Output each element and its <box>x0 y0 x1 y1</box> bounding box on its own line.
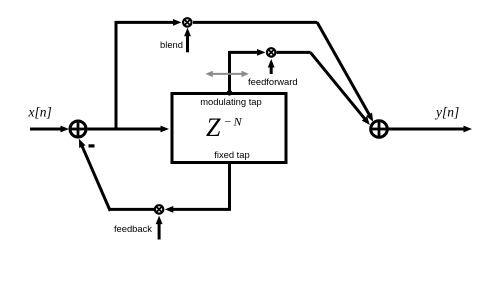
multiplier M1 (blend) <box>183 18 191 26</box>
wire S1 to delay box <box>88 128 163 131</box>
output wire <box>389 128 465 131</box>
minus sign at feedback input of S1 <box>89 144 95 147</box>
svg-text:modulating tap: modulating tap <box>200 96 262 107</box>
wire tap up <box>228 52 231 92</box>
svg-text:fixed tap: fixed tap <box>214 149 249 160</box>
multiplier M3 (feedback) <box>155 205 163 213</box>
wire bottom to feedback multiplier <box>172 208 232 211</box>
delay box Z^-N <box>172 94 286 163</box>
wire blend multiplier to corner <box>193 21 317 24</box>
svg-text:y[n]: y[n] <box>434 105 459 120</box>
adder S1 (input summing node) <box>70 121 86 137</box>
junction dot at modulating tap <box>227 90 233 96</box>
wire input to adder S1 <box>30 128 62 131</box>
svg-text:blend: blend <box>160 39 183 50</box>
wire branch up to blend (vertical) <box>115 22 118 129</box>
diagonal wire feedforward to adder S2 <box>310 52 365 119</box>
svg-text:feedforward: feedforward <box>248 76 298 87</box>
wire feedforward to corner <box>277 51 311 54</box>
svg-text:feedback: feedback <box>114 223 152 234</box>
diagonal wire blend to adder S2 <box>317 22 369 114</box>
adder S2 (output summing node) <box>371 121 388 138</box>
svg-text:x[n]: x[n] <box>28 105 52 120</box>
diagonal wire feedback up to adder S1 <box>81 145 110 211</box>
multiplier M2 (feedforward) <box>267 48 275 56</box>
blend control arrow (vertical up) <box>186 32 189 52</box>
wire fixed tap down <box>228 162 231 209</box>
feedback control arrow (vertical up) <box>158 220 161 240</box>
wire tap to feedforward multiplier <box>228 51 259 54</box>
wire feedback multiplier to corner <box>109 208 154 211</box>
wire top horizontal to blend multiplier <box>115 21 175 24</box>
feedforward control arrow (vertical up) <box>270 63 273 75</box>
modulation range arrow (gray, double-headed) <box>205 71 249 77</box>
